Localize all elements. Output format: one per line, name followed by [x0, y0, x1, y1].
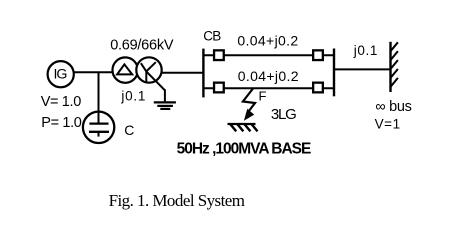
capacitor C	[83, 72, 114, 143]
svg-text:Fig. 1. Model System: Fig. 1. Model System	[109, 191, 245, 210]
ground (transformer neutral)	[154, 102, 176, 109]
wire wye neutral to ground	[146, 71, 165, 101]
svg-text:0.04+j0.2: 0.04+j0.2	[238, 68, 299, 84]
svg-text:V=1: V=1	[375, 116, 401, 131]
svg-text:50Hz ,100MVA BASE: 50Hz ,100MVA BASE	[177, 140, 311, 157]
fault ground hatched	[228, 124, 258, 131]
transformer delta winding	[113, 57, 138, 82]
infinite bus bar	[391, 42, 398, 92]
circuit breaker CB lower-left	[214, 83, 224, 93]
generator IG	[48, 61, 74, 87]
svg-text:∞ bus: ∞ bus	[375, 99, 411, 115]
circuit breaker CB lower-right	[313, 83, 323, 93]
svg-text:IG: IG	[54, 66, 67, 82]
fault F lightning arrow	[243, 88, 255, 121]
svg-text:0.69/66kV: 0.69/66kV	[110, 38, 174, 54]
svg-text:0.04+j0.2: 0.04+j0.2	[237, 33, 298, 49]
svg-text:j0.1: j0.1	[120, 89, 146, 104]
svg-text:V= 1.0: V= 1.0	[41, 94, 82, 110]
svg-text:j0.1: j0.1	[353, 43, 378, 58]
wire upper transmission line	[203, 54, 334, 56]
circuit breaker CB upper-left	[214, 50, 224, 60]
wire lower transmission line	[203, 87, 334, 89]
svg-text:F: F	[259, 88, 267, 103]
svg-text:P= 1.0: P= 1.0	[41, 115, 82, 131]
node left bus	[202, 49, 204, 98]
svg-text:C: C	[124, 122, 134, 138]
wire right bus to infinite bus	[334, 68, 391, 70]
wire IG to transformer	[73, 71, 114, 73]
circuit breaker CB upper-right	[313, 50, 323, 60]
svg-text:3LG: 3LG	[271, 106, 296, 123]
svg-text:CB: CB	[203, 29, 221, 44]
node right bus	[333, 49, 335, 97]
transformer wye winding	[136, 57, 161, 82]
wire transformer to left bus	[161, 72, 205, 74]
